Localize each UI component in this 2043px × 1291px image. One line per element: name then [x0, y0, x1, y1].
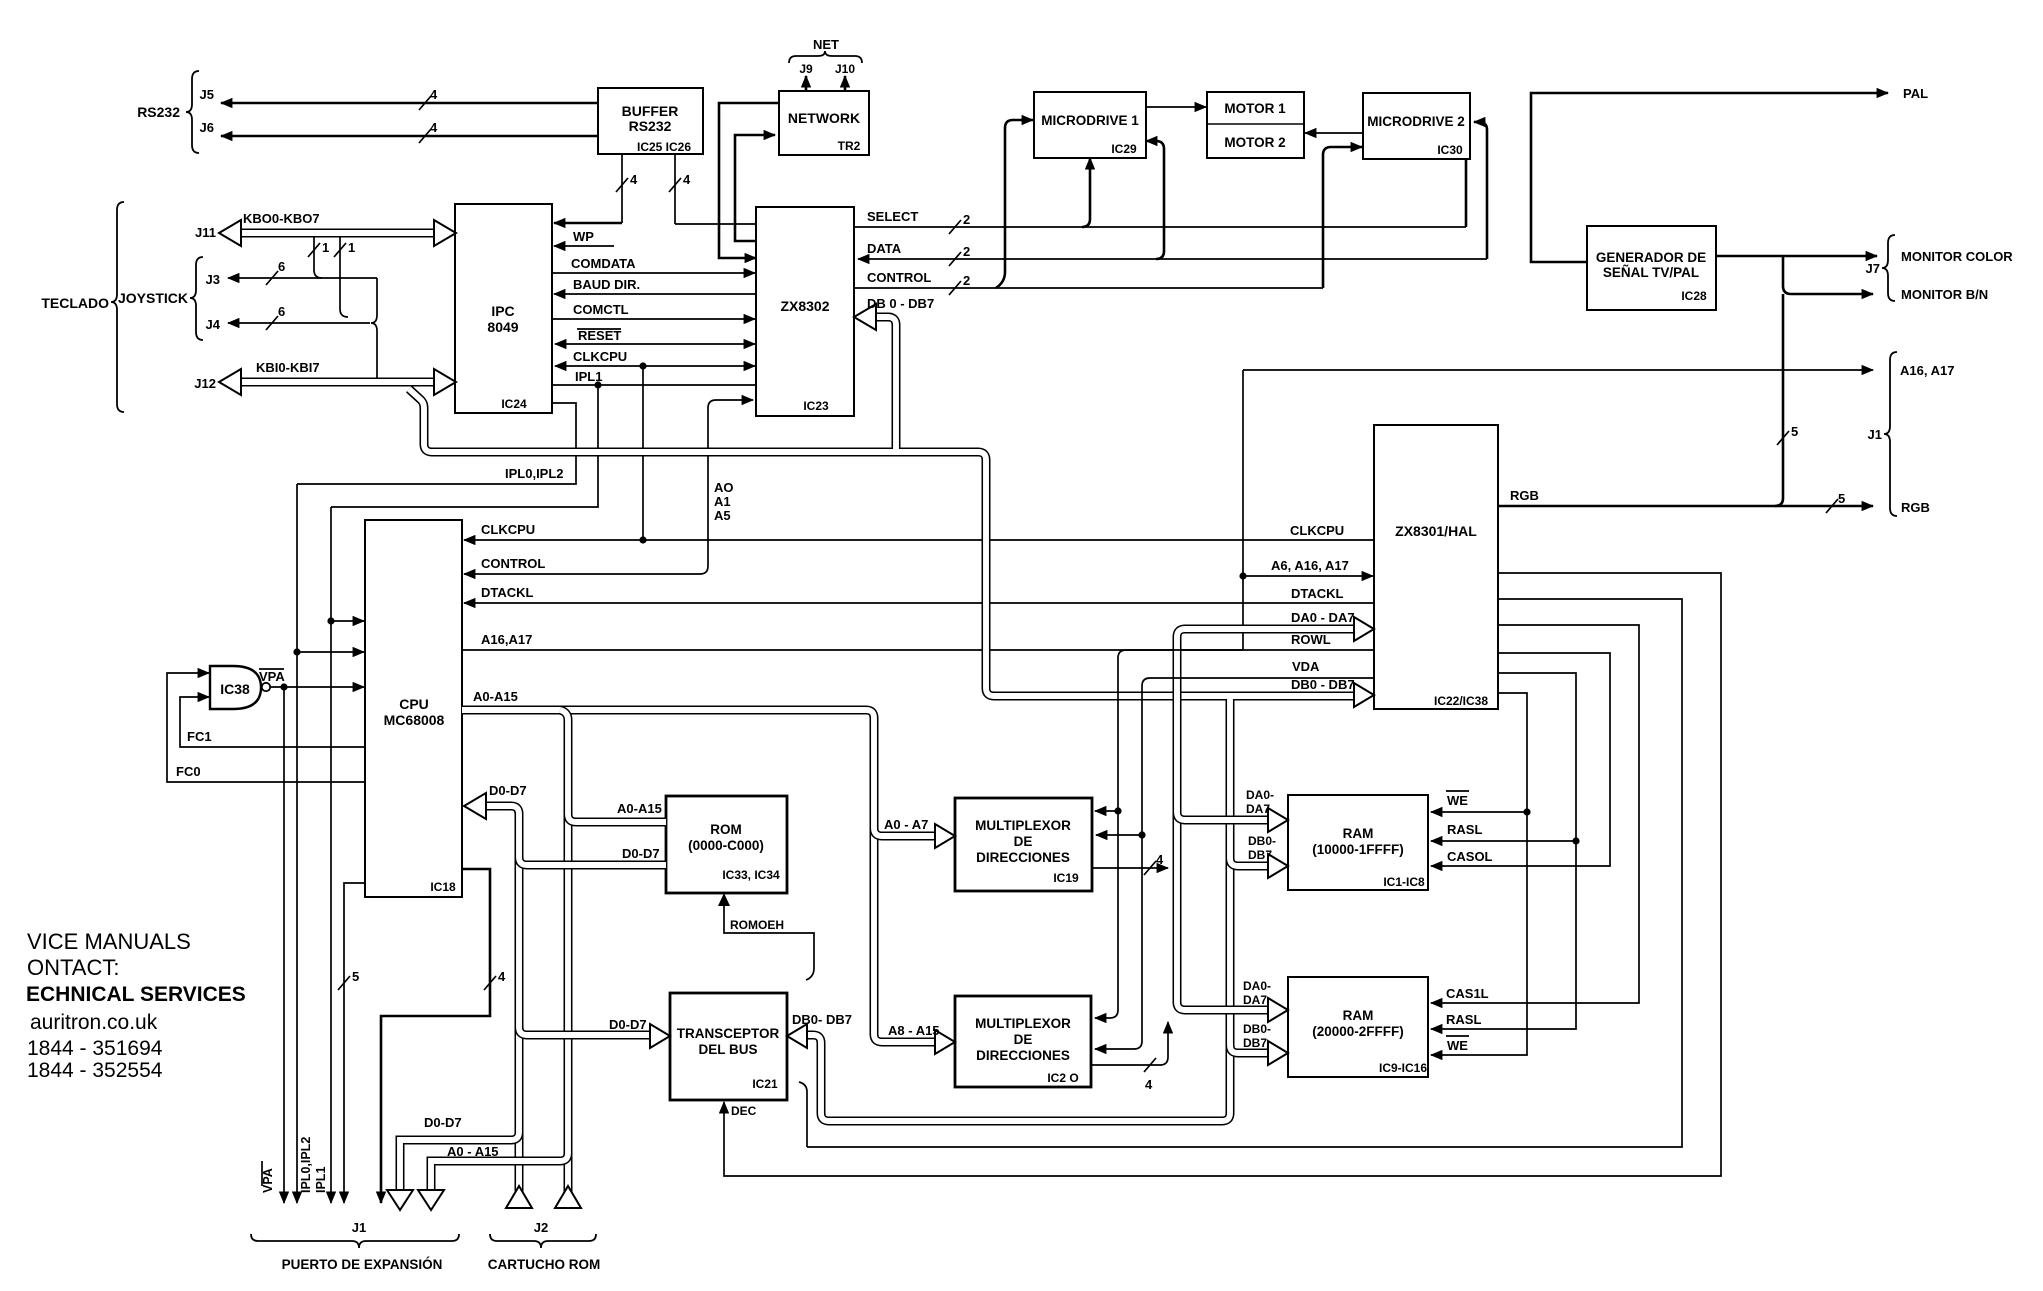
bus DB vertical to RAMs and transceptor loop — [787, 696, 1230, 1121]
svg-text:BAUD DIR.: BAUD DIR. — [573, 277, 640, 292]
svg-text:MICRODRIVE 2: MICRODRIVE 2 — [1367, 114, 1465, 129]
svg-text:DA0-: DA0- — [1246, 788, 1274, 802]
svg-text:DB0-: DB0- — [1243, 1022, 1271, 1036]
CPU MC68008 IC18 — [365, 520, 462, 897]
svg-text:DATA: DATA — [867, 241, 902, 256]
svg-text:IPC: IPC — [491, 303, 514, 319]
svg-text:TECLADO: TECLADO — [41, 295, 109, 311]
svg-text:DIRECCIONES: DIRECCIONES — [976, 1048, 1070, 1063]
svg-text:WE: WE — [1447, 793, 1468, 808]
svg-text:ONTACT:: ONTACT: — [27, 955, 119, 980]
svg-text:5: 5 — [1791, 424, 1798, 439]
RAM (10000-1FFFF) IC1-IC8 — [1288, 795, 1428, 890]
svg-text:IC30: IC30 — [1437, 143, 1463, 157]
svg-text:RASL: RASL — [1447, 822, 1482, 837]
svg-text:A8 - A15: A8 - A15 — [888, 1023, 940, 1038]
svg-text:1: 1 — [322, 240, 329, 255]
svg-text:RS232: RS232 — [137, 104, 180, 120]
microdrive 1 IC29 — [1034, 92, 1146, 158]
svg-text:auritron.co.uk: auritron.co.uk — [30, 1011, 158, 1034]
multiplexor de direcciones IC19 — [955, 798, 1092, 891]
wire DTACKL (CPU - ZX8301) — [464, 585, 1374, 603]
wire WP — [554, 229, 614, 246]
svg-text:RASL: RASL — [1446, 1012, 1481, 1027]
motor 1 / motor 2 — [1207, 92, 1304, 158]
svg-text:DB7: DB7 — [1248, 848, 1272, 862]
svg-text:6: 6 — [278, 304, 285, 319]
svg-text:CLKCPU: CLKCPU — [481, 522, 535, 537]
svg-text:(20000-2FFFF): (20000-2FFFF) — [1312, 1024, 1404, 1039]
wire DEC loop (outermost) — [724, 573, 1721, 1176]
svg-text:GENERADOR DE: GENERADOR DE — [1596, 250, 1706, 265]
wire CLKCPU long (CPU - ZX8301) — [464, 366, 1374, 544]
svg-text:IC29: IC29 — [1111, 142, 1137, 156]
wire monitor B/N branch — [1783, 256, 1988, 302]
wire RASL (shared) — [1431, 673, 1580, 1029]
brace J2 — [488, 1220, 601, 1272]
wire MD2 to MOTOR2 — [1305, 132, 1363, 134]
watermark text — [26, 929, 246, 1082]
svg-text:A0-A15: A0-A15 — [617, 801, 662, 816]
svg-text:VDA: VDA — [1292, 659, 1320, 674]
svg-text:CASOL: CASOL — [1447, 849, 1493, 864]
wire A6,A16,A17 into ZX8301 — [1243, 558, 1373, 576]
wire CLKCPU — [555, 349, 755, 370]
wire DATA — [858, 122, 1487, 266]
svg-text:DTACKL: DTACKL — [1291, 586, 1344, 601]
svg-text:ROWL: ROWL — [1291, 632, 1331, 647]
wire J6 line — [200, 120, 598, 143]
svg-text:MONITOR B/N: MONITOR B/N — [1901, 287, 1988, 302]
svg-text:MICRODRIVE 1: MICRODRIVE 1 — [1041, 113, 1139, 128]
bus A0-A15 from CPU — [462, 689, 874, 1034]
svg-text:4: 4 — [430, 120, 438, 135]
svg-text:DA0-: DA0- — [1243, 979, 1271, 993]
svg-text:RS232: RS232 — [629, 118, 672, 134]
wire buffer to ZX8302 — [669, 154, 756, 224]
svg-text:5: 5 — [1838, 491, 1845, 506]
wire MD1 to MOTOR1 — [1146, 106, 1206, 108]
svg-text:(10000-1FFFF): (10000-1FFFF) — [1312, 842, 1404, 857]
svg-text:1844 - 352554: 1844 - 352554 — [27, 1059, 163, 1082]
wire FC0 — [167, 673, 365, 782]
svg-text:A0-A15: A0-A15 — [473, 689, 518, 704]
bus D0-D7 from CPU down — [464, 783, 527, 1196]
J1 solid arrows — [284, 1198, 381, 1203]
wire J5 line — [200, 87, 598, 110]
svg-text:CAS1L: CAS1L — [1446, 986, 1489, 1001]
svg-text:COMCTL: COMCTL — [573, 302, 629, 317]
wire CONTROL — [854, 147, 1362, 295]
wire nest line 2 (to x807 curl) — [799, 599, 1682, 1147]
wire MUX2 output 4 — [1091, 1022, 1168, 1092]
svg-text:IPL1: IPL1 — [314, 1167, 328, 1193]
bus DB0-DB7 up to ZX8302 — [854, 296, 934, 452]
transceptor del bus IC21 — [670, 993, 787, 1100]
svg-text:MONITOR COLOR: MONITOR COLOR — [1901, 249, 2013, 264]
svg-text:DA0 - DA7: DA0 - DA7 — [1291, 610, 1355, 625]
svg-text:DIRECCIONES: DIRECCIONES — [976, 850, 1070, 865]
svg-text:DEC: DEC — [731, 1104, 757, 1118]
wire ZX8302 to NETWORK (y103) — [719, 103, 779, 258]
ZX8302 IC23 — [756, 207, 854, 416]
svg-text:J2: J2 — [534, 1220, 548, 1235]
svg-text:IC23: IC23 — [803, 399, 829, 413]
svg-text:KBI0-KBI7: KBI0-KBI7 — [256, 360, 320, 375]
svg-text:6: 6 — [278, 259, 285, 274]
svg-text:ROMOEH: ROMOEH — [730, 918, 784, 932]
svg-text:IC21: IC21 — [752, 1077, 778, 1091]
svg-text:IC2 O: IC2 O — [1047, 1071, 1078, 1085]
svg-text:J5: J5 — [200, 87, 214, 102]
svg-text:5: 5 — [352, 969, 359, 984]
svg-text:RGB: RGB — [1901, 500, 1930, 515]
svg-text:4: 4 — [683, 172, 691, 187]
bus DA branch to RAM1 — [1177, 788, 1288, 832]
svg-text:DB0-: DB0- — [1248, 834, 1276, 848]
wire monitor color — [1716, 249, 2013, 264]
svg-text:DA7: DA7 — [1246, 802, 1270, 816]
svg-text:IPL0,IPL2: IPL0,IPL2 — [299, 1137, 313, 1193]
svg-text:4: 4 — [498, 969, 506, 984]
wire 1-bit branch to J3 — [308, 237, 329, 278]
wire 5-line from CPU to J1 — [338, 883, 365, 1198]
wire VPA output — [259, 669, 364, 1198]
svg-text:J1: J1 — [352, 1220, 366, 1235]
svg-text:CLKCPU: CLKCPU — [573, 349, 627, 364]
svg-text:PUERTO DE EXPANSIÓN: PUERTO DE EXPANSIÓN — [282, 1257, 443, 1272]
generador de senal TV/PAL IC28 — [1587, 226, 1716, 310]
bus D0-D7 branch to ROM — [519, 846, 666, 865]
svg-text:J3: J3 — [206, 272, 220, 287]
svg-text:CONTROL: CONTROL — [481, 556, 545, 571]
svg-text:IPL0,IPL2: IPL0,IPL2 — [505, 466, 564, 481]
svg-text:KBO0-KBO7: KBO0-KBO7 — [243, 211, 320, 226]
wire 4-line from CPU to J1 — [381, 869, 506, 1198]
connector J2 A0-A15 bus arrow — [555, 1186, 581, 1208]
wire IPL1 branch — [327, 385, 598, 1198]
wire WE (shared) — [1431, 693, 1531, 1055]
svg-text:J7: J7 — [1866, 261, 1880, 276]
node NET / J9 J10 arrows — [789, 37, 862, 91]
ZX8301/HAL IC22/IC38 — [1374, 425, 1498, 709]
svg-text:IC24: IC24 — [501, 397, 527, 411]
bus D0-D7 branch to transceptor — [519, 1017, 670, 1048]
svg-text:MC68008: MC68008 — [384, 712, 445, 728]
op-amp style NAND gate IC38 — [210, 666, 270, 709]
svg-text:IC25 IC26: IC25 IC26 — [637, 140, 691, 154]
svg-text:(0000-C000): (0000-C000) — [688, 838, 764, 853]
svg-text:MOTOR 1: MOTOR 1 — [1224, 101, 1286, 116]
svg-text:RAM: RAM — [1343, 826, 1374, 841]
bus A8-A15 into MUX2 — [874, 1023, 955, 1054]
bus DB0-DB7 from J12 along y452 — [409, 389, 1374, 707]
svg-text:ZX8301/HAL: ZX8301/HAL — [1395, 523, 1477, 539]
bus KBO0-KBO7 J11 to IPC — [195, 211, 456, 246]
connector J2 D0-D7 bus arrow — [506, 1186, 532, 1208]
svg-text:IC38: IC38 — [220, 681, 250, 697]
wire CASOL (RAM1) — [1431, 653, 1610, 866]
svg-text:2: 2 — [963, 273, 970, 288]
svg-text:A16, A17: A16, A17 — [1900, 363, 1954, 378]
brace RS232 — [137, 71, 199, 153]
svg-text:ECHNICAL SERVICES: ECHNICAL SERVICES — [26, 983, 246, 1006]
svg-text:A0 - A15: A0 - A15 — [447, 1144, 499, 1159]
wire COMCTL — [552, 302, 755, 319]
wire VDA — [1095, 659, 1374, 1049]
wire ROWL — [1095, 632, 1374, 1018]
svg-text:AO: AO — [714, 480, 734, 495]
IPC 8049 IC24 — [455, 204, 552, 413]
svg-text:4: 4 — [630, 172, 638, 187]
svg-text:SELECT: SELECT — [867, 209, 918, 224]
svg-text:VICE MANUALS: VICE MANUALS — [27, 929, 191, 954]
wire A16,A17 from CPU — [462, 632, 1243, 650]
bus KBI0-KBI7 J12 to IPC — [194, 360, 456, 395]
ROM IC33,IC34 — [666, 796, 787, 893]
svg-text:SEÑAL TV/PAL: SEÑAL TV/PAL — [1603, 265, 1699, 280]
svg-text:IC18: IC18 — [430, 880, 456, 894]
svg-text:NET: NET — [813, 37, 839, 52]
svg-text:J4: J4 — [206, 317, 221, 332]
svg-text:A16,A17: A16,A17 — [481, 632, 532, 647]
wire PAL — [1531, 86, 1928, 262]
svg-text:J1: J1 — [1868, 427, 1882, 442]
wire J3/J4 junction vertical — [371, 278, 377, 378]
svg-text:DB0- DB7: DB0- DB7 — [792, 1012, 852, 1027]
svg-text:TR2: TR2 — [838, 139, 861, 153]
svg-text:J9: J9 — [799, 62, 813, 76]
wire IPL0,IPL2 — [293, 403, 576, 1198]
svg-text:WE: WE — [1447, 1038, 1468, 1053]
svg-text:8049: 8049 — [487, 319, 518, 335]
svg-text:4: 4 — [1156, 852, 1164, 867]
bus D0-D7 branch to J1 — [400, 1115, 519, 1196]
svg-text:J11: J11 — [195, 225, 216, 240]
svg-text:MULTIPLEXOR: MULTIPLEXOR — [975, 818, 1071, 833]
svg-text:A6, A16, A17: A6, A16, A17 — [1271, 558, 1349, 573]
svg-text:IC19: IC19 — [1053, 871, 1079, 885]
wire ROMOEH — [718, 893, 814, 980]
svg-text:CARTUCHO ROM: CARTUCHO ROM — [488, 1257, 601, 1272]
svg-text:JOYSTICK: JOYSTICK — [118, 290, 188, 306]
svg-text:RAM: RAM — [1343, 1008, 1374, 1023]
svg-text:CONTROL: CONTROL — [867, 270, 931, 285]
svg-text:VPA: VPA — [259, 669, 285, 684]
wire CAS1L (RAM2) — [1431, 625, 1639, 1003]
svg-text:IC33, IC34: IC33, IC34 — [722, 868, 780, 882]
wire ZX8302 to NETWORK (arrow into network) — [735, 135, 775, 241]
bus DB branch to RAM1 — [1230, 834, 1288, 878]
wire RESET — [555, 328, 755, 344]
svg-text:J12: J12 — [194, 376, 216, 391]
connector J1 A0-A15 bus arrow — [418, 1190, 444, 1210]
brace JOYSTICK — [118, 257, 203, 340]
svg-text:DEL BUS: DEL BUS — [698, 1042, 757, 1057]
svg-text:D0-D7: D0-D7 — [489, 783, 527, 798]
wire 1-bit branch to J4 — [334, 237, 355, 317]
wire FC1 — [180, 697, 365, 747]
svg-text:2: 2 — [963, 212, 970, 227]
svg-text:NETWORK: NETWORK — [788, 110, 860, 126]
bus A0-A15 branch to ROM and J2 — [560, 710, 666, 1196]
svg-text:DE: DE — [1014, 834, 1033, 849]
brace J7 — [1866, 235, 1895, 301]
RAM (20000-2FFFF) IC9-IC16 — [1288, 977, 1428, 1077]
svg-text:WP: WP — [573, 229, 594, 244]
svg-text:DB0 - DB7: DB0 - DB7 — [1291, 677, 1355, 692]
microdrive 2 IC30 — [1363, 93, 1470, 159]
wire BAUD DIR. — [554, 277, 756, 294]
wire SELECT — [854, 120, 1466, 288]
svg-text:IC22/IC38: IC22/IC38 — [1434, 694, 1488, 708]
wire J3 line — [206, 259, 377, 287]
bus A0-A7 into MUX1 — [874, 817, 955, 848]
wire RGB vertical J1 — [1775, 294, 1798, 506]
bus A0-A15 branch to J1 — [431, 1144, 568, 1196]
svg-text:D0-D7: D0-D7 — [609, 1017, 647, 1032]
svg-text:4: 4 — [430, 87, 438, 102]
wire A16,A17 to J1 — [1239, 363, 1954, 650]
brace J1 — [251, 1220, 459, 1272]
svg-text:BUFFER: BUFFER — [622, 103, 679, 119]
svg-text:IC9-IC16: IC9-IC16 — [1379, 1061, 1427, 1075]
wire COMDATA — [552, 256, 755, 273]
svg-text:DB 0 - DB7: DB 0 - DB7 — [867, 296, 934, 311]
svg-text:COMDATA: COMDATA — [571, 256, 636, 271]
svg-text:FC0: FC0 — [176, 764, 201, 779]
svg-text:MOTOR 2: MOTOR 2 — [1224, 135, 1285, 150]
wire IPL1 — [552, 369, 756, 389]
svg-text:RESET: RESET — [578, 328, 621, 343]
svg-text:A0 - A7: A0 - A7 — [884, 817, 928, 832]
multiplexor de direcciones IC20 — [955, 996, 1091, 1087]
svg-text:CLKCPU: CLKCPU — [1290, 523, 1344, 538]
bus DA0-DA7 from ZX8301 to RAMs — [1177, 610, 1374, 1022]
connector J1 D0-D7 bus arrow — [387, 1190, 413, 1210]
svg-text:DE: DE — [1014, 1032, 1033, 1047]
svg-text:2: 2 — [963, 244, 970, 259]
svg-text:ZX8302: ZX8302 — [780, 298, 829, 314]
svg-text:DTACKL: DTACKL — [481, 585, 534, 600]
brace J1 — [1868, 352, 1897, 516]
brace TECLADO — [41, 202, 124, 412]
svg-text:J10: J10 — [835, 62, 855, 76]
svg-text:FC1: FC1 — [187, 729, 212, 744]
svg-text:MULTIPLEXOR: MULTIPLEXOR — [975, 1016, 1071, 1031]
rotated labels VPA IPL0,IPL2 IPL1 — [261, 1137, 328, 1193]
wire RGB — [1498, 488, 1930, 515]
svg-text:4: 4 — [1145, 1077, 1153, 1092]
svg-text:ROM: ROM — [710, 822, 742, 837]
wire CONTROL into CPU from A0/A1/A5 vertical — [464, 400, 753, 574]
wire J4 line — [206, 304, 370, 332]
buffer RS232 IC25/IC26 — [598, 88, 703, 154]
bus DB branch to RAM2 — [1230, 1022, 1288, 1065]
svg-text:TRANSCEPTOR: TRANSCEPTOR — [677, 1026, 780, 1041]
network TR2 — [779, 91, 869, 155]
svg-text:DA7: DA7 — [1243, 993, 1267, 1007]
svg-text:CPU: CPU — [399, 696, 429, 712]
svg-text:IC28: IC28 — [1681, 289, 1707, 303]
svg-text:A5: A5 — [714, 508, 731, 523]
wire buffer to IPC — [554, 154, 638, 223]
wire MUX1 output 4 — [1092, 852, 1168, 875]
svg-text:1844 - 351694: 1844 - 351694 — [27, 1037, 163, 1060]
svg-text:1: 1 — [348, 240, 355, 255]
svg-text:D0-D7: D0-D7 — [622, 846, 660, 861]
svg-text:RGB: RGB — [1510, 488, 1539, 503]
svg-text:VPA: VPA — [261, 1168, 275, 1193]
svg-text:PAL: PAL — [1903, 86, 1928, 101]
svg-text:IC1-IC8: IC1-IC8 — [1383, 875, 1425, 889]
svg-text:A1: A1 — [714, 494, 731, 509]
svg-text:DB7: DB7 — [1243, 1036, 1267, 1050]
svg-text:D0-D7: D0-D7 — [424, 1115, 462, 1130]
svg-text:J6: J6 — [200, 120, 214, 135]
